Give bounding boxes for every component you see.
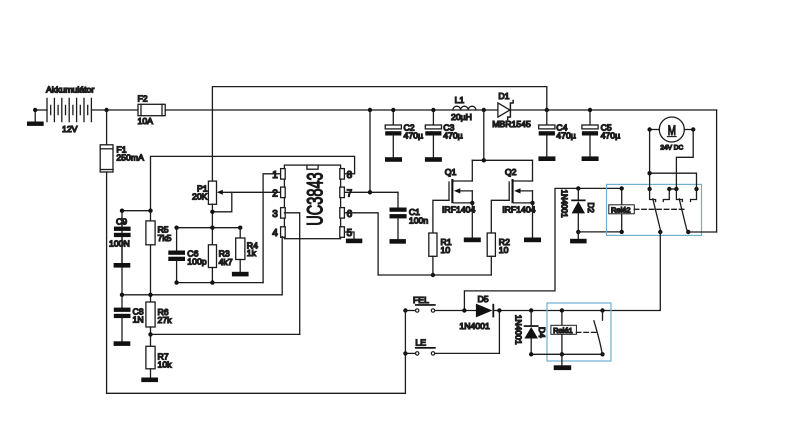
wire relay1 mech dashed	[576, 331, 596, 333]
wire drain rail horizontal	[472, 159, 532, 161]
resistor R4 1k	[236, 228, 258, 272]
svg-text:10: 10	[441, 245, 451, 255]
capacitor C9 100N	[109, 209, 151, 297]
wire node line	[177, 227, 241, 229]
svg-text:10: 10	[499, 245, 509, 255]
diode D4 1N4001	[513, 311, 547, 355]
svg-text:470µ: 470µ	[404, 131, 424, 141]
wire F1 top	[106, 110, 108, 145]
svg-text:Relé2: Relé2	[611, 205, 631, 214]
wire relay1 bottom	[531, 353, 602, 355]
svg-text:LE: LE	[415, 338, 426, 348]
svg-text:20K: 20K	[192, 192, 208, 202]
wire link contacts	[669, 188, 676, 190]
wire pin 8	[151, 156, 355, 221]
relay2 contact A blade	[653, 199, 661, 232]
node motor right	[691, 127, 695, 131]
node relay2 blade B bottom	[686, 230, 690, 234]
wire motor right	[684, 129, 693, 131]
node D4 top	[529, 308, 533, 312]
node pin7 junction	[368, 190, 372, 194]
svg-text:D4: D4	[537, 327, 547, 338]
wire Q2 gate	[491, 200, 509, 233]
svg-text:1: 1	[272, 170, 278, 181]
ground relay1	[554, 365, 572, 370]
relay2 contact A common	[647, 187, 655, 202]
node motor branch	[647, 171, 651, 175]
wire C9 top. nothing	[148, 209, 152, 213]
ground pin5	[346, 239, 362, 244]
capacitor C3 470u	[425, 110, 462, 157]
svg-text:IRF1404: IRF1404	[502, 204, 535, 214]
wire FEL right to D5	[435, 310, 476, 312]
wire junction to F2	[107, 109, 138, 111]
svg-text:100n: 100n	[409, 216, 428, 226]
wire Q1 gate	[433, 200, 449, 233]
wire FEL rail down	[404, 311, 406, 394]
relay2 contact B common	[674, 187, 682, 202]
node relay1 blade bottom	[600, 352, 604, 356]
inductor L1 20uH	[451, 95, 476, 122]
ground C1	[390, 239, 406, 244]
relay1 switch common	[600, 308, 604, 320]
relay2 fixed contact A2	[663, 187, 671, 202]
relay2 fixed contact B2	[691, 187, 699, 202]
svg-text:4: 4	[272, 228, 278, 239]
node motor left	[647, 127, 651, 131]
svg-text:FEL: FEL	[413, 295, 429, 305]
svg-text:5: 5	[347, 228, 353, 239]
diode D1 MBR1545	[492, 91, 531, 129]
svg-text:10A: 10A	[138, 116, 154, 126]
wire pin 3	[284, 213, 299, 335]
wire D5 cathode	[494, 310, 602, 312]
wire FEL left	[405, 310, 415, 312]
op-amp U1 UC3843	[272, 165, 352, 239]
wire pin7 rail to bus	[369, 110, 371, 192]
svg-text:2: 2	[272, 188, 278, 199]
capacitor C5 470u	[582, 110, 620, 156]
node R4 top	[238, 226, 242, 230]
relay1 label Relé1	[551, 325, 577, 335]
diode D2 1N4001	[560, 188, 596, 232]
node D4 bottom	[529, 352, 533, 356]
wire motor left	[650, 129, 660, 131]
svg-text:6: 6	[347, 209, 353, 220]
svg-text:MBR1545: MBR1545	[492, 119, 531, 129]
resistor R2 10	[487, 233, 510, 275]
wire motor left down	[649, 130, 651, 190]
svg-text:D5: D5	[478, 294, 489, 304]
fuse F2 10A	[138, 94, 166, 126]
wire pin 1	[263, 174, 280, 283]
wire left rail down	[106, 172, 108, 393]
relay2 contact B blade	[679, 199, 688, 232]
wire R5 bottom to R6	[150, 245, 152, 302]
ground C9	[114, 263, 131, 268]
svg-text:D1: D1	[498, 91, 509, 101]
node R6 R7 junction	[148, 332, 152, 336]
svg-text:100N: 100N	[109, 239, 130, 249]
transistor Q2 IRF1404	[502, 160, 535, 237]
svg-text:24V DC: 24V DC	[660, 144, 683, 151]
node R3 bottom	[210, 280, 214, 284]
wire coil bottom	[578, 231, 621, 233]
wire P1 bottom	[211, 204, 213, 227]
wire D2 to ground	[577, 232, 579, 239]
relay1 box	[547, 303, 611, 361]
relay2 box	[607, 184, 702, 235]
svg-text:10k: 10k	[158, 360, 173, 370]
potentiometer P1 20K	[192, 181, 217, 204]
svg-text:Relé1: Relé1	[553, 326, 573, 335]
relay2 label Relé2	[609, 205, 635, 215]
ground battery	[27, 110, 44, 126]
capacitor C6 100p	[168, 228, 206, 283]
resistor R1 10	[429, 233, 452, 275]
node C5 bus	[588, 108, 592, 112]
node drain rail	[482, 158, 486, 162]
wire LE branch down	[498, 311, 500, 354]
ground C2	[385, 157, 402, 162]
svg-text:12V: 12V	[62, 124, 78, 134]
diode D5 1N4001	[459, 294, 494, 331]
wire main bus F2 to right rail	[165, 109, 716, 111]
resistor R7 10k	[146, 346, 172, 377]
node top loop to bus	[545, 108, 549, 112]
transistor Q1 IRF1404	[442, 160, 475, 237]
svg-text:250mA: 250mA	[116, 152, 144, 162]
resistor R5 7k5	[146, 221, 172, 245]
wire pin 5	[345, 232, 354, 239]
fuse F1 250mA	[100, 145, 144, 173]
node C6 bottom	[174, 280, 178, 284]
node L1 D1 junction	[482, 108, 486, 112]
ground Q2	[524, 238, 541, 243]
svg-text:470µ: 470µ	[556, 131, 576, 141]
svg-text:100p: 100p	[187, 257, 206, 267]
wire relay2 blade A down to relay1	[603, 232, 661, 311]
svg-text:4k7: 4k7	[219, 257, 233, 267]
svg-text:27k: 27k	[158, 315, 173, 325]
svg-text:1N: 1N	[133, 315, 144, 325]
wire relay2 blade B to right rail	[688, 231, 716, 233]
wire C6/R3 bottom to pin1	[177, 282, 264, 284]
svg-text:470µ: 470µ	[601, 131, 621, 141]
node D5 LE branch	[497, 308, 501, 312]
wire LE left	[405, 352, 415, 354]
svg-text:7: 7	[347, 188, 353, 199]
capacitor C8 1N	[114, 295, 144, 342]
svg-text:C9: C9	[116, 216, 127, 226]
wire pin 4	[122, 237, 282, 295]
wire motor right jog	[676, 130, 693, 190]
svg-text:L1: L1	[455, 95, 465, 105]
node D2 top	[576, 186, 580, 190]
relay1 switch blade	[594, 321, 602, 355]
node gate line R1	[431, 273, 435, 277]
svg-text:Q1: Q1	[445, 167, 457, 177]
motor M 24V DC	[659, 117, 684, 151]
svg-text:1N4001: 1N4001	[560, 190, 569, 219]
resistor R6 27k	[146, 302, 172, 346]
svg-text:1N4001: 1N4001	[459, 321, 490, 331]
wire P1 wiper arrow from pin2	[212, 190, 280, 212]
svg-text:470µ: 470µ	[443, 131, 463, 141]
node C3 bus	[431, 108, 435, 112]
svg-text:M: M	[668, 122, 676, 138]
capacitor C2 470u	[385, 110, 423, 157]
capacitor C1 100n	[390, 192, 429, 239]
resistor R3 4k7	[208, 228, 232, 283]
node LE left	[403, 351, 407, 355]
node battery minus	[33, 108, 37, 112]
node R5 R6 junction	[148, 293, 152, 297]
ground C4	[538, 156, 555, 161]
wire	[35, 109, 47, 111]
wire pin 7	[345, 191, 398, 193]
ground R4	[232, 272, 249, 277]
node bus pin7 rail	[368, 108, 372, 112]
relay2 coil	[620, 186, 624, 234]
svg-text:Q2: Q2	[505, 167, 517, 177]
battery Akkumulátor 12V	[46, 85, 94, 134]
node C2 bus	[391, 108, 395, 112]
ground C8	[114, 341, 131, 346]
node P1/R3	[210, 226, 214, 230]
switch LE	[415, 338, 436, 355]
wire R6/R7 to pin3	[151, 333, 300, 335]
svg-text:F2: F2	[138, 94, 148, 104]
svg-text:IRF1404: IRF1404	[442, 204, 475, 214]
svg-text:7k5: 7k5	[158, 233, 172, 243]
wire drain rail from bus	[483, 110, 485, 160]
svg-text:Akkumulátor: Akkumulátor	[46, 85, 94, 95]
relay1 coil	[560, 308, 564, 356]
ground D2	[570, 239, 587, 244]
node P1 bottom	[210, 210, 214, 214]
node battery/F1 junction	[104, 108, 108, 112]
svg-text:1N4001: 1N4001	[513, 315, 523, 345]
svg-text:3: 3	[272, 209, 278, 220]
node relay2 blade A bottom	[658, 230, 662, 234]
node FEL left	[403, 308, 407, 312]
svg-text:D2: D2	[586, 203, 595, 214]
node D2 bottom	[576, 230, 580, 234]
node C6 top	[174, 226, 178, 230]
switch FEL	[413, 295, 436, 312]
svg-text:8: 8	[347, 170, 353, 181]
svg-text:UC3843: UC3843	[302, 172, 327, 225]
ground R7	[141, 378, 158, 383]
wire bottom return	[107, 392, 406, 394]
wire top loop	[212, 87, 546, 182]
wire right rail	[716, 110, 718, 232]
svg-text:20µH: 20µH	[451, 112, 472, 122]
ground Q1	[464, 238, 481, 243]
wire battery to junction	[91, 109, 106, 111]
wire motor branch right	[650, 173, 697, 189]
node D5 anode	[462, 308, 466, 312]
capacitor C4 470u	[539, 110, 576, 156]
wire LE right	[435, 352, 499, 354]
svg-text:1k: 1k	[247, 248, 257, 258]
wire relay2 mech dashed	[634, 208, 684, 210]
wire relay1 coil ground	[561, 354, 563, 365]
wire relay2 coil feed	[464, 188, 621, 310]
ground C3	[425, 157, 442, 162]
wire pin 6	[345, 213, 491, 275]
ground C5	[582, 156, 599, 161]
